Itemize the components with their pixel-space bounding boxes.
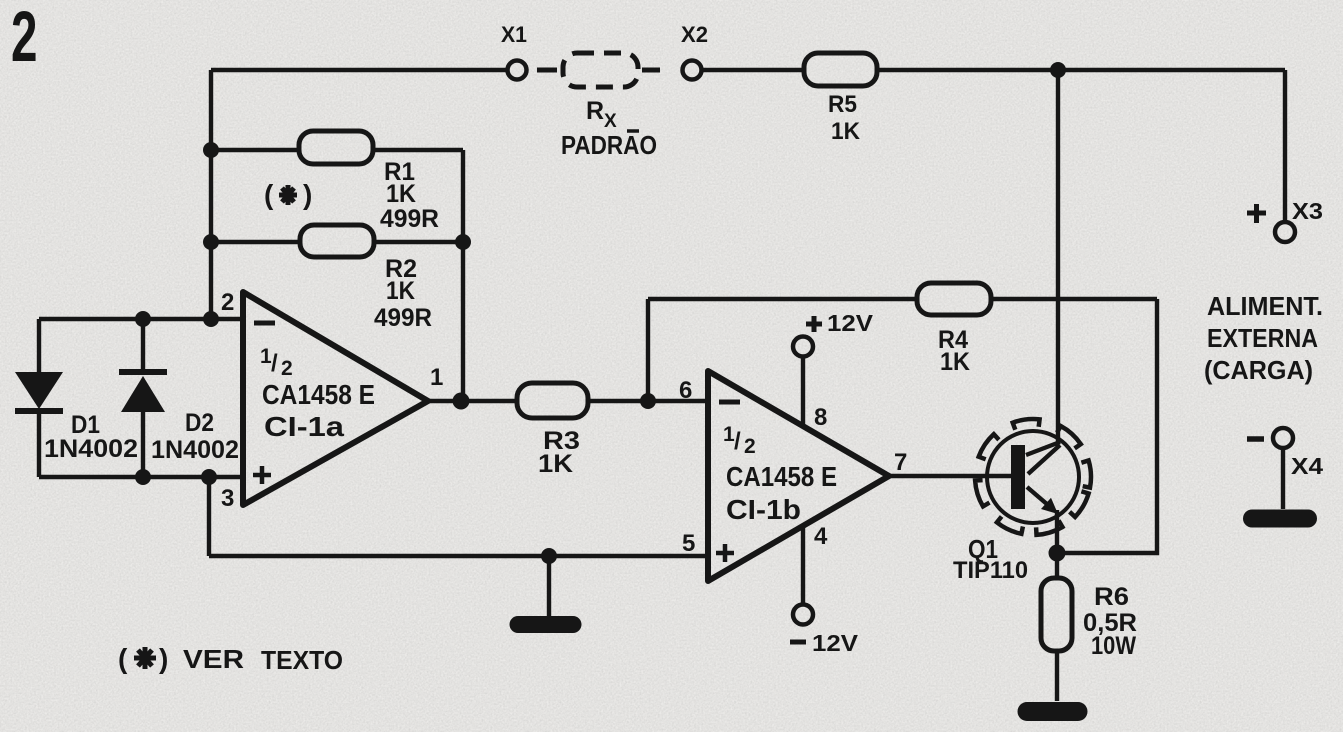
wire R5 to right corner	[877, 68, 1285, 72]
svg-text:TIP110: TIP110	[953, 557, 1028, 584]
svg-text:PADRAO: PADRAO	[561, 130, 657, 160]
svg-text:X: X	[604, 111, 617, 132]
svg-text:1N4002: 1N4002	[44, 435, 138, 463]
terminal X3	[1275, 222, 1295, 242]
wire X2 to R5	[703, 68, 804, 72]
svg-text:2: 2	[744, 435, 756, 458]
wire to R2	[211, 240, 463, 244]
transistor Q1 case arcs	[975, 419, 1091, 535]
wire right vertical to emitter	[1058, 299, 1157, 553]
wire R4 to right corner	[991, 297, 1157, 301]
terminal -12V	[793, 605, 813, 625]
node junction R1 left	[203, 142, 219, 158]
wire to R1	[211, 148, 463, 152]
wire pin5 rail	[209, 554, 708, 558]
node junction pin3	[201, 469, 217, 485]
transistor Q1 base bar	[1011, 445, 1025, 509]
wire R3 to pin6	[587, 399, 708, 403]
resistor R3	[517, 383, 588, 418]
svg-text:X2: X2	[681, 22, 708, 47]
wire dash RX to X2	[642, 68, 660, 73]
terminal X1	[508, 61, 527, 80]
svg-text:3: 3	[221, 485, 234, 512]
svg-text:X3: X3	[1292, 198, 1323, 224]
wire node3 vertical	[207, 477, 211, 556]
figure number 2	[11, 0, 37, 76]
terminal X4	[1273, 428, 1293, 448]
op-amp U1 CI-1a	[243, 292, 428, 505]
wire D1 branch	[37, 319, 41, 477]
wire pin8	[801, 357, 805, 426]
svg-text:499R: 499R	[380, 205, 439, 233]
node junction output 1	[453, 393, 470, 410]
svg-text:CI-1b: CI-1b	[726, 494, 801, 525]
transistor Q1 collector strokes	[1026, 442, 1060, 474]
diode D2 1N4002	[119, 369, 167, 375]
svg-text:1K: 1K	[386, 277, 415, 305]
svg-text:1N4002: 1N4002	[151, 436, 239, 464]
svg-text:CI-1a: CI-1a	[264, 411, 344, 442]
svg-text:4: 4	[814, 523, 828, 550]
node junction emitter	[1049, 545, 1066, 562]
label ALIMENT. EXTERNA (CARGA)	[1204, 291, 1323, 385]
wire emitter to R6	[1055, 553, 1059, 578]
svg-text:2: 2	[221, 289, 234, 316]
svg-text:R: R	[586, 97, 604, 125]
resistor R5	[804, 53, 877, 86]
wire X4 to ground	[1281, 448, 1285, 509]
svg-text:VER: VER	[183, 644, 244, 674]
ground G3	[1252, 510, 1308, 528]
svg-text:R5: R5	[828, 91, 857, 118]
svg-text:TEXTO: TEXTO	[261, 645, 343, 675]
svg-text:1: 1	[430, 364, 443, 391]
resistor R4	[917, 283, 991, 315]
node junction R2 right	[455, 234, 471, 250]
wire top rail left	[211, 68, 507, 72]
terminal +12V	[793, 337, 813, 357]
wire feedback top rail	[648, 297, 917, 301]
svg-text:R6: R6	[1094, 583, 1129, 611]
svg-text:12V: 12V	[827, 310, 874, 336]
node junction top rail	[1050, 62, 1066, 78]
wire pin3 row	[39, 475, 243, 479]
svg-text:(CARGA): (CARGA)	[1204, 355, 1313, 385]
svg-text:5: 5	[682, 530, 695, 557]
wire down to X3	[1283, 70, 1287, 222]
node junction pin2	[203, 311, 219, 327]
node junction D2 top	[135, 311, 151, 327]
svg-text:ALIMENT.: ALIMENT.	[1207, 291, 1323, 321]
node junction ground rail	[541, 548, 557, 564]
svg-text:(: (	[264, 179, 274, 210]
terminal X2	[683, 61, 702, 80]
wire dash X1 to RX	[537, 68, 557, 73]
wire op1 output	[428, 399, 517, 403]
wire node2 row	[39, 317, 243, 321]
resistor R6	[1041, 578, 1072, 651]
svg-text:/: /	[271, 350, 278, 377]
svg-text:8: 8	[814, 404, 827, 431]
node junction R2 left	[203, 234, 219, 250]
svg-text:6: 6	[679, 377, 692, 404]
transistor Q1 emitter	[1027, 487, 1048, 505]
svg-text:CA1458 E: CA1458 E	[726, 461, 837, 492]
wire pin4	[801, 526, 805, 604]
wire right vertical R1R2 to output	[461, 150, 465, 401]
svg-text:10W: 10W	[1091, 632, 1136, 660]
svg-text:D2: D2	[185, 409, 214, 437]
label (*) VER TEXTO	[118, 643, 343, 675]
svg-text:): )	[159, 643, 168, 674]
wire D2 branch	[141, 319, 145, 477]
wire op2 output to base	[889, 474, 1012, 478]
ground G1	[547, 556, 551, 616]
svg-text:12V: 12V	[812, 630, 859, 656]
ground G2	[1027, 702, 1078, 721]
node junction D2 bottom	[135, 469, 151, 485]
resistor R2	[300, 225, 374, 257]
svg-text:X4: X4	[1291, 453, 1323, 479]
node junction pin6	[640, 393, 656, 409]
svg-text:X1: X1	[501, 22, 527, 47]
diode D1 1N4002	[15, 372, 63, 409]
resistor RX (dashed)	[563, 53, 638, 87]
wire emitter	[1055, 510, 1059, 553]
transistor Q1 circle	[987, 431, 1079, 523]
wire collector vertical	[1056, 70, 1060, 443]
svg-text:2: 2	[281, 357, 293, 380]
svg-text:): )	[303, 179, 312, 210]
label (*) ver texto mark	[264, 179, 312, 210]
svg-text:1K: 1K	[940, 348, 970, 376]
svg-text:/: /	[734, 428, 741, 455]
svg-text:1K: 1K	[831, 118, 861, 145]
svg-text:1K: 1K	[538, 450, 573, 478]
svg-text:CA1458 E: CA1458 E	[262, 379, 375, 410]
wire R6 to ground	[1055, 651, 1059, 701]
wire left vertical	[209, 70, 213, 319]
svg-text:7: 7	[894, 449, 907, 476]
svg-text:(: (	[118, 643, 128, 674]
op-amp U2 CI-1b	[708, 371, 889, 581]
svg-text:2: 2	[11, 0, 37, 76]
wire feedback vertical	[646, 299, 650, 401]
svg-text:1K: 1K	[386, 180, 416, 208]
svg-text:EXTERNA: EXTERNA	[1207, 323, 1318, 353]
svg-text:499R: 499R	[374, 304, 432, 332]
resistor R1	[299, 131, 373, 164]
